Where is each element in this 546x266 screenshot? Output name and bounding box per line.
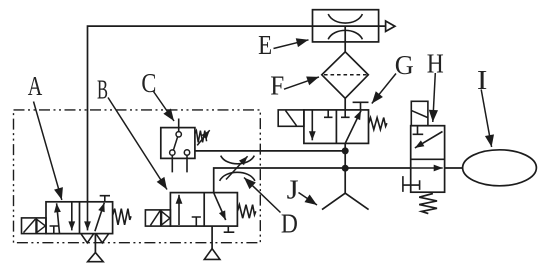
label arrow F xyxy=(284,77,319,89)
label arrow I xyxy=(481,90,491,148)
valve A right diagonal arrow xyxy=(95,203,104,232)
valve B diagonal arrow xyxy=(214,193,226,220)
E lower arc xyxy=(328,30,362,39)
valve B body xyxy=(170,193,237,227)
svg-text:C: C xyxy=(141,68,156,98)
component C box xyxy=(161,128,195,159)
E stem xyxy=(344,26,346,52)
component C bottom-left circle xyxy=(170,150,175,155)
valve A pilot diagonal xyxy=(24,219,36,233)
open arrow at right end of E line xyxy=(386,21,395,31)
component C bottom-right circle xyxy=(184,150,189,155)
label arrow J xyxy=(299,193,318,206)
svg-text:B: B xyxy=(97,75,108,105)
valve H pilot diagonal xyxy=(412,111,428,118)
valve B pilot triangle xyxy=(162,211,170,225)
valve H divider xyxy=(411,158,445,160)
valve G spring xyxy=(369,118,387,130)
valve A divider xyxy=(79,202,81,234)
sensor E body xyxy=(313,10,379,42)
svg-text:I: I xyxy=(477,65,488,95)
valve B spring xyxy=(238,205,256,219)
label arrow H xyxy=(433,73,436,122)
E upper arc xyxy=(328,14,362,23)
F dashed line xyxy=(324,74,367,76)
valve B pilot divider xyxy=(160,210,162,226)
wire: valve H to ellipse I xyxy=(445,167,463,169)
svg-text:D: D xyxy=(281,208,298,238)
valve A supply triangle xyxy=(88,253,104,262)
throttle D upper arc xyxy=(221,156,255,164)
valve G right diagonal arrow xyxy=(345,111,361,144)
valve H flow arrow xyxy=(411,167,443,169)
valve G pilot box xyxy=(278,110,304,126)
claw J symbol xyxy=(322,193,369,209)
label arrow E xyxy=(274,40,309,49)
ellipse I xyxy=(463,150,537,186)
valve G left down arrow xyxy=(311,110,313,140)
valve G body xyxy=(304,110,369,143)
valve A body xyxy=(46,202,113,234)
valve A pilot divider xyxy=(35,218,37,234)
component C spring xyxy=(195,131,207,143)
valve G right blocked port xyxy=(341,110,350,117)
valve H pilot box xyxy=(411,101,428,125)
valve A exhaust V left xyxy=(81,234,94,243)
wire: line 1 from C to junction xyxy=(195,150,345,152)
svg-text:G: G xyxy=(395,50,414,80)
valve H blocked port top xyxy=(413,126,424,135)
throttle D adjust arrow xyxy=(226,156,248,179)
valve A right down arrow xyxy=(87,202,89,231)
valve B up arrow xyxy=(178,195,180,225)
component C adjust arrow xyxy=(197,130,210,145)
valve B divider xyxy=(203,193,205,227)
component C top circle xyxy=(176,132,181,137)
valve A left blocked port xyxy=(50,226,59,234)
junction dot on line 1 xyxy=(342,147,349,154)
component C bottom stubs xyxy=(172,155,187,172)
valve B blocked port left square xyxy=(192,217,201,226)
valve G pilot diagonal xyxy=(286,111,297,126)
valve A pilot triangle xyxy=(37,219,46,232)
wire: valve G drain down xyxy=(344,143,346,193)
label arrow G xyxy=(372,74,396,104)
valve B plugged port below xyxy=(224,226,235,232)
svg-text:F: F xyxy=(270,71,284,101)
valve H spring xyxy=(419,194,437,214)
component C top stub xyxy=(178,119,180,132)
component C link line xyxy=(173,137,177,150)
throttle D lower arc xyxy=(220,172,255,181)
svg-text:H: H xyxy=(427,49,444,79)
label arrow C xyxy=(154,92,175,122)
valve G plugged port above xyxy=(353,102,369,110)
valve B supply triangle xyxy=(204,249,220,260)
label arrow B xyxy=(108,98,167,190)
wire: filter to valve G xyxy=(344,98,346,110)
valve A exhaust V right xyxy=(96,234,109,243)
valve B supply stub xyxy=(211,226,213,249)
valve A left diagonal arrow xyxy=(57,203,60,233)
svg-text:E: E xyxy=(258,30,272,60)
wire: supply riser and line to nozzle E xyxy=(88,26,386,202)
valve B pilot box xyxy=(145,210,170,226)
label arrow D xyxy=(244,178,281,213)
dash-dot enclosure xyxy=(14,110,261,243)
valve H body xyxy=(411,126,445,193)
valve A spring xyxy=(113,209,131,225)
valve H blocked port left xyxy=(403,176,420,192)
wire: line 2 from valve B riser to valve H xyxy=(214,168,411,193)
filter F diamond xyxy=(322,52,369,99)
valve B pilot diagonal xyxy=(150,211,160,226)
label arrow A xyxy=(34,102,62,200)
valve A supply stub xyxy=(94,234,96,253)
valve G left blocked port xyxy=(324,110,333,117)
valve A plugged port above xyxy=(100,196,110,202)
junction dot on line 2 xyxy=(342,165,349,172)
valve A pilot box xyxy=(22,218,47,234)
valve A left down arrow xyxy=(71,202,73,231)
valve G divider xyxy=(335,110,337,143)
svg-text:J: J xyxy=(287,174,299,204)
valve H diagonal arrow xyxy=(415,132,443,148)
svg-text:A: A xyxy=(28,71,43,101)
